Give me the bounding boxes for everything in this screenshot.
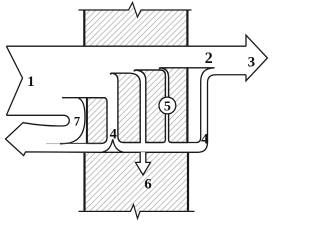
wall piece left (between U-turn and channel 4) [87, 98, 107, 144]
wall finger 3 (between channel 5 and right face) [160, 68, 188, 143]
wall right face below flow [186, 68, 188, 142]
U-turn island cap [64, 115, 69, 126]
wall finger 2 (between channel 6 and channel 5) [135, 70, 166, 143]
flow top edge [6, 45, 246, 47]
wall upper right face [186, 10, 188, 45]
flow divider cusp at node 4 left [103, 139, 123, 152]
wall lower left face [83, 153, 85, 211]
U-turn outer arc at wall face [60, 98, 85, 144]
wall upper slab [79, 3, 192, 47]
svg-text:7: 7 [74, 114, 80, 128]
wall lower slab [79, 153, 195, 219]
svg-text:1: 1 [27, 74, 34, 90]
flow boundary right of wall to branch 2 corner [187, 68, 214, 143]
wall upper left face [83, 10, 85, 45]
arrow 1 tail notch [6, 46, 22, 115]
lip tip dots [110, 73, 112, 75]
svg-text:4: 4 [110, 126, 117, 142]
storage circle node 5 [159, 97, 176, 114]
svg-text:2: 2 [205, 50, 213, 67]
collector top line west (under left piece to arrow 7) [60, 142, 101, 144]
splitter line over left wall piece [62, 97, 105, 99]
svg-text:4: 4 [201, 132, 208, 148]
svg-text:3: 3 [248, 55, 256, 71]
arrow 3 head [246, 35, 267, 81]
wall piece left inner face [86, 98, 88, 143]
arrow 1 bottom edge [6, 114, 64, 116]
arrow 6 (downward into lower wall) [136, 152, 151, 175]
wall finger 1 (between channel 4 and channel 6) [111, 73, 140, 142]
arrow 7 outline (return flow, head left) [6, 75, 247, 156]
wall lower right face [187, 153, 189, 211]
svg-text:6: 6 [144, 176, 151, 192]
svg-text:5: 5 [164, 100, 171, 115]
